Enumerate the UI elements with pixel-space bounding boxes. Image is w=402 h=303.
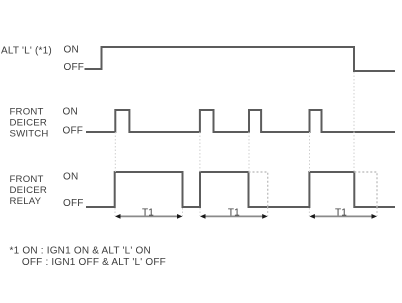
- svg-text:ON: ON: [63, 172, 78, 183]
- svg-text:T1: T1: [142, 207, 154, 218]
- wire dotted extension to T1 arrow (pulse3 right): [376, 207, 378, 216]
- svg-text:OFF: OFF: [63, 198, 84, 209]
- wire FRONT DEICER RELAY waveform: [86, 172, 395, 207]
- wire dashed alignment ALT fall: [353, 72, 355, 172]
- svg-text:FRONT: FRONT: [10, 174, 44, 185]
- wire dashed alignment switch rise 4: [309, 132, 311, 172]
- wire dotted relay T1 timeout extension (pulse 2): [249, 172, 268, 207]
- wire dashed extension to T1 arrow (pulse1 right): [182, 208, 184, 216]
- svg-text:DEICER: DEICER: [10, 118, 47, 129]
- dimension arrow T1 (pulse 3): [309, 214, 377, 219]
- svg-text:OFF: OFF: [63, 125, 84, 136]
- wire dashed extension to T1 arrow (pulse2 left): [199, 208, 201, 216]
- svg-text:SWITCH: SWITCH: [10, 129, 49, 140]
- wire ALT 'L' waveform: [85, 47, 396, 71]
- svg-text:ALT 'L' (*1): ALT 'L' (*1): [1, 46, 52, 57]
- svg-text:RELAY: RELAY: [10, 196, 42, 207]
- svg-text:*1: *1: [10, 246, 20, 257]
- svg-text:FRONT: FRONT: [10, 107, 44, 118]
- wire dotted extension to T1 arrow (pulse2 right): [267, 207, 269, 216]
- wire dashed alignment switch rise 2: [199, 132, 201, 172]
- wire dashed extension to T1 arrow (pulse1 left): [114, 208, 116, 216]
- svg-text:T1: T1: [335, 207, 347, 218]
- dimension arrow T1 (pulse 1): [115, 214, 183, 219]
- svg-text:DEICER: DEICER: [10, 185, 47, 196]
- wire dotted relay T1 timeout extension (pulse 3): [354, 172, 377, 207]
- svg-text:OFF: OFF: [64, 62, 85, 73]
- wire dashed alignment switch rise 1: [114, 132, 116, 172]
- svg-text:ON : IGN1 ON & ALT 'L' ON: ON : IGN1 ON & ALT 'L' ON: [22, 246, 150, 257]
- svg-text:ON: ON: [63, 107, 78, 118]
- svg-text:OFF : IGN1 OFF & ALT 'L' OFF: OFF : IGN1 OFF & ALT 'L' OFF: [22, 257, 166, 268]
- wire dashed alignment switch rise 3: [248, 132, 250, 172]
- svg-text:ON: ON: [64, 45, 79, 56]
- svg-text:T1: T1: [228, 207, 240, 218]
- wire FRONT DEICER SWITCH waveform: [86, 110, 395, 132]
- dimension arrow T1 (pulse 2): [200, 214, 268, 219]
- wire dashed extension to T1 arrow (pulse3 left): [308, 208, 310, 216]
